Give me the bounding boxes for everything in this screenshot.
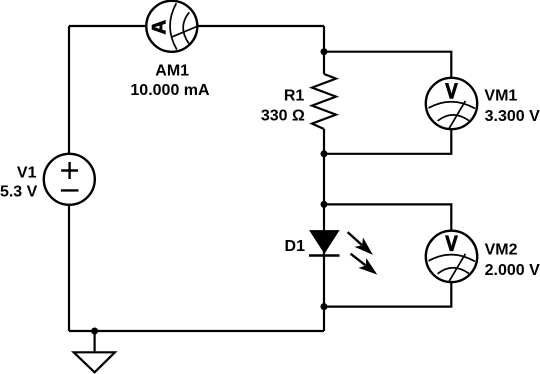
svg-text:VM2: VM2 — [485, 241, 518, 258]
voltmeter VM1 internals — [429, 101, 476, 129]
svg-text:AM1: AM1 — [155, 63, 189, 80]
wire: right branch from resistor through LED to bottom — [323, 129, 325, 331]
ground stub wire — [93, 331, 95, 352]
LED D1 arrow 1 — [343, 227, 377, 259]
voltage source V1 circle — [44, 154, 95, 205]
svg-text:2.000 V: 2.000 V — [485, 262, 540, 279]
ammeter AM1 letter — [152, 20, 166, 35]
wire: left rail — [68, 26, 70, 331]
V1 plus sign — [61, 162, 78, 179]
LED D1 triangle — [310, 231, 339, 253]
wire: VM1 loop — [324, 52, 451, 154]
voltmeter VM2 circle — [426, 231, 477, 282]
voltmeter VM1 circle — [426, 78, 477, 129]
LED D1 cathode bar — [309, 254, 340, 256]
svg-text:R1: R1 — [284, 87, 305, 104]
voltmeter VM1 letter — [445, 83, 458, 99]
ground symbol — [74, 352, 115, 372]
wire: top rail from V1 top corner to right branch — [69, 25, 324, 27]
resistor R1 — [312, 74, 336, 129]
node junction dot (D1 top/VM2 top) — [321, 201, 328, 208]
node junction dot (R1 bottom/VM1 bottom) — [321, 150, 328, 157]
ammeter AM1 internals — [170, 3, 199, 49]
svg-text:V1: V1 — [17, 165, 37, 182]
voltmeter VM2 internals — [429, 254, 476, 282]
svg-text:330 Ω: 330 Ω — [261, 108, 305, 125]
svg-text:VM1: VM1 — [484, 87, 517, 104]
node junction dot (D1 bottom/VM2 bottom) — [321, 303, 328, 310]
node junction dot ground — [91, 328, 98, 335]
wire: VM2 loop — [324, 204, 451, 306]
wire: bottom rail — [69, 330, 324, 332]
svg-text:5.3 V: 5.3 V — [0, 184, 38, 201]
LED D1 arrow 2 — [347, 249, 382, 280]
svg-text:3.300 V: 3.300 V — [485, 108, 540, 125]
svg-text:D1: D1 — [285, 238, 306, 255]
svg-text:10.000 mA: 10.000 mA — [130, 82, 210, 99]
voltmeter VM2 letter — [445, 235, 458, 251]
wire: right branch vertical upper segment — [323, 26, 325, 74]
ammeter AM1 circle — [146, 1, 197, 52]
V1 minus sign — [61, 189, 79, 191]
node junction dot top (R1/VM1 top) — [321, 48, 328, 55]
